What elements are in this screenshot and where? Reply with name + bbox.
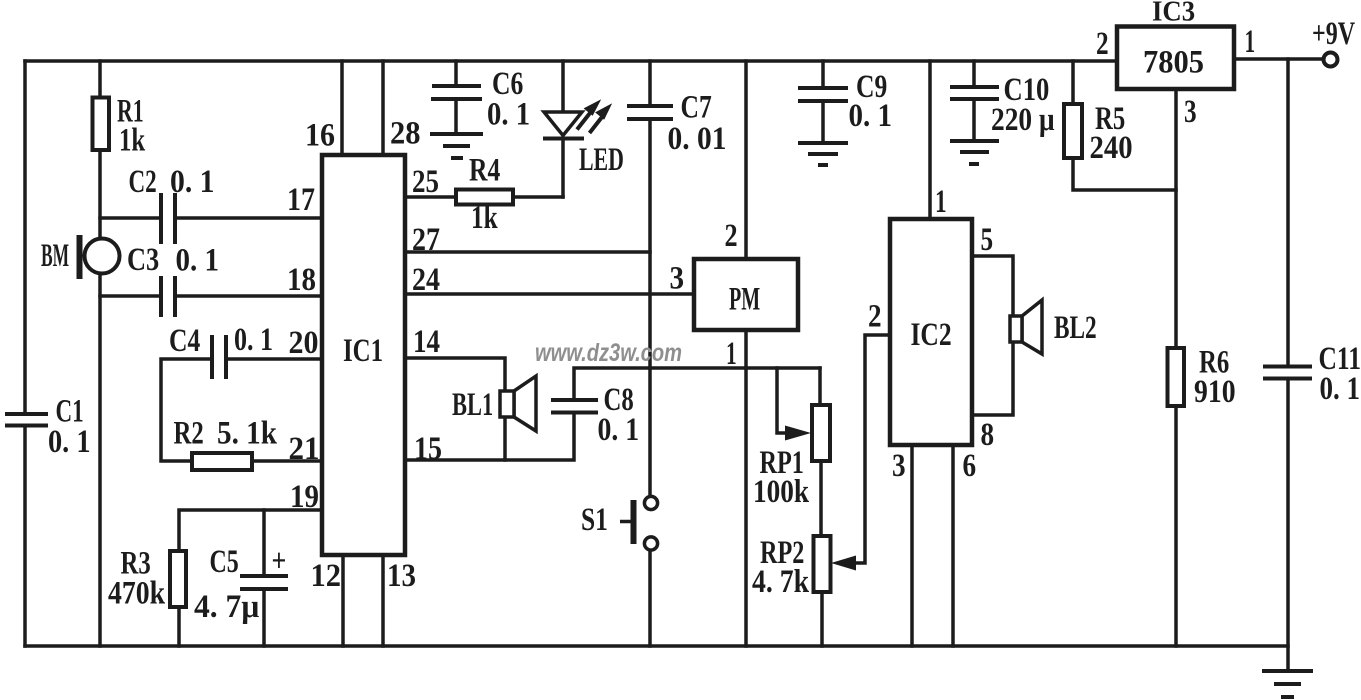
svg-text:20: 20 [289, 324, 319, 361]
svg-text:0. 1: 0. 1 [1320, 369, 1361, 406]
svg-text:0. 1: 0. 1 [48, 423, 91, 459]
svg-text:PM: PM [729, 280, 760, 316]
svg-text:3: 3 [892, 447, 906, 484]
svg-text:24: 24 [412, 261, 440, 298]
svg-text:0. 1: 0. 1 [234, 322, 273, 358]
svg-text:IC1: IC1 [343, 333, 383, 369]
svg-text:1: 1 [935, 184, 947, 220]
svg-text:0. 1: 0. 1 [170, 163, 215, 200]
svg-text:C4: C4 [169, 323, 200, 359]
svg-text:240: 240 [1090, 128, 1133, 165]
svg-text:8: 8 [981, 416, 995, 453]
svg-text:C5: C5 [210, 543, 239, 580]
svg-text:2: 2 [868, 297, 882, 334]
svg-text:BL2: BL2 [1054, 310, 1097, 346]
svg-text:14: 14 [413, 322, 440, 359]
svg-text:470k: 470k [108, 574, 165, 611]
svg-text:15: 15 [414, 430, 442, 467]
svg-text:BL1: BL1 [452, 387, 493, 423]
svg-text:6: 6 [963, 447, 977, 484]
svg-text:1k: 1k [119, 122, 146, 158]
svg-text:BM: BM [41, 236, 69, 274]
svg-text:3: 3 [1184, 94, 1197, 130]
svg-text:27: 27 [412, 221, 440, 258]
svg-text:12: 12 [311, 557, 341, 593]
svg-text:R4: R4 [469, 153, 500, 189]
svg-text:28: 28 [390, 114, 420, 150]
svg-text:0. 1: 0. 1 [849, 96, 893, 133]
svg-text:1: 1 [1245, 24, 1256, 61]
svg-text:C3: C3 [127, 241, 159, 277]
svg-text:IC2: IC2 [911, 317, 952, 353]
svg-text:7805: 7805 [1143, 43, 1204, 79]
svg-text:IC3: IC3 [1152, 0, 1195, 27]
svg-text:0. 1: 0. 1 [487, 95, 530, 132]
svg-text:0. 1: 0. 1 [598, 411, 640, 448]
svg-text:910: 910 [1194, 373, 1236, 410]
svg-text:+: + [272, 544, 287, 580]
svg-text:C2: C2 [129, 164, 157, 200]
svg-text:21: 21 [289, 429, 320, 466]
svg-text:4. 7μ: 4. 7μ [194, 587, 259, 624]
svg-text:220 μ: 220 μ [991, 101, 1055, 138]
svg-text:3: 3 [670, 259, 685, 296]
svg-text:www.dz3w.com: www.dz3w.com [535, 339, 682, 367]
svg-text:16: 16 [305, 116, 335, 153]
svg-text:25: 25 [412, 162, 439, 199]
svg-text:5. 1k: 5. 1k [217, 414, 278, 451]
svg-text:2: 2 [1096, 26, 1109, 62]
svg-text:1: 1 [726, 336, 737, 373]
svg-text:0. 01: 0. 01 [668, 119, 727, 156]
svg-text:13: 13 [387, 556, 416, 593]
svg-text:1k: 1k [471, 200, 498, 236]
svg-text:2: 2 [725, 217, 738, 254]
svg-text:18: 18 [287, 260, 316, 297]
svg-text:19: 19 [290, 477, 319, 514]
svg-text:R2: R2 [174, 415, 204, 451]
svg-text:+9V: +9V [1312, 15, 1355, 52]
svg-text:100k: 100k [753, 473, 809, 510]
svg-text:17: 17 [287, 181, 315, 218]
svg-text:LED: LED [579, 142, 624, 179]
svg-text:4. 7k: 4. 7k [752, 563, 809, 600]
svg-text:5: 5 [981, 222, 994, 258]
svg-text:S1: S1 [581, 502, 608, 538]
svg-text:0. 1: 0. 1 [176, 241, 220, 278]
